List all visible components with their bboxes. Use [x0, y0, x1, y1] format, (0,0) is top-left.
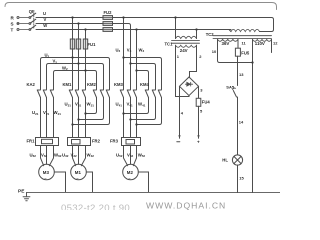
- wire R lead-in: [19, 17, 28, 19]
- svg-text:KM4: KM4: [140, 82, 150, 87]
- wire DC plus upper: [198, 86, 200, 98]
- motor M1: [71, 164, 87, 180]
- wire loop U2: [41, 58, 110, 90]
- wire lamp branch mid 14: [237, 97, 239, 155]
- svg-text:11: 11: [242, 40, 247, 45]
- wire phase3 drop to FU1: [85, 30, 87, 40]
- svg-text:10: 10: [212, 49, 217, 54]
- svg-text:U: U: [43, 11, 46, 16]
- svg-text:W31: W31: [87, 102, 95, 108]
- svg-text:W32: W32: [87, 152, 95, 158]
- svg-text:S: S: [11, 21, 14, 26]
- svg-text:KA2: KA2: [27, 82, 36, 87]
- svg-text:V31: V31: [75, 102, 82, 108]
- wire G1 lower leads: [40, 98, 42, 138]
- node T terminal: [17, 29, 19, 31]
- svg-text:4: 4: [181, 110, 184, 115]
- wire KM4 merge link 3: [137, 98, 162, 125]
- transformer TC2 primary coil: [231, 29, 260, 31]
- wire G2 column 3: [85, 49, 87, 90]
- wire DC plus lower: [198, 106, 200, 138]
- motor M2: [123, 164, 139, 180]
- fuse FU1 pole2: [76, 39, 80, 49]
- lamp HL: [232, 155, 242, 165]
- thermal relay FR3: [122, 138, 141, 146]
- wire motor feeders at 46.5: [41, 146, 44, 166]
- thermal relay FR1: [36, 138, 59, 146]
- svg-text:FR2: FR2: [92, 139, 101, 144]
- svg-text:V41: V41: [127, 102, 134, 108]
- wire G4 column U: [123, 18, 125, 90]
- wire TC1 primary left drop: [175, 18, 177, 39]
- bridge rectifier VC: [180, 77, 199, 96]
- contactor KM2 contacts: [93, 90, 109, 98]
- wire 110V common lead: [252, 39, 254, 192]
- svg-text:V3: V3: [127, 47, 132, 53]
- wire V bus: [36, 24, 131, 58]
- wire 36V left lead 10: [218, 39, 253, 62]
- fuse FU1 pass-through lines: [72, 39, 74, 49]
- fuse FU1 pole1: [70, 39, 74, 49]
- svg-text:QF: QF: [29, 9, 35, 14]
- wire 36V right lead 11: [237, 39, 239, 48]
- wire loop V3: [131, 64, 156, 90]
- svg-text:2: 2: [199, 54, 202, 59]
- svg-text:W62: W62: [54, 152, 62, 158]
- svg-text:TC1: TC1: [165, 41, 174, 46]
- node S terminal: [17, 23, 19, 25]
- svg-text:TC2: TC2: [206, 32, 215, 37]
- svg-text:U32: U32: [62, 152, 69, 158]
- wire TC1 sec lead 2: [190, 45, 197, 77]
- fuse FU2 pole2: [103, 22, 113, 26]
- wire KM4 merge link 1: [124, 98, 149, 114]
- wire loop V2: [47, 64, 104, 90]
- wire G2 column 2: [78, 49, 80, 90]
- fuse FU2 pass-through lines: [103, 17, 113, 19]
- svg-text:24V: 24V: [180, 48, 188, 53]
- svg-text:12: 12: [273, 40, 278, 45]
- contactor KM3 contacts: [120, 90, 136, 98]
- svg-text:110V: 110V: [255, 41, 265, 46]
- svg-text:13: 13: [239, 72, 244, 77]
- svg-text:U3: U3: [116, 47, 121, 53]
- svg-text:FR3: FR3: [110, 139, 119, 144]
- svg-text:HL: HL: [222, 158, 228, 163]
- svg-text:U41: U41: [116, 102, 123, 108]
- wire KM2 merge link 1: [86, 98, 97, 114]
- wire loop U3: [124, 58, 162, 90]
- transformer TC2 36V secondary: [218, 39, 239, 41]
- svg-text:15: 15: [239, 176, 244, 181]
- svg-text:WWW.DQHAI.CN: WWW.DQHAI.CN: [146, 201, 226, 210]
- fuse FU2 pole1: [103, 16, 113, 20]
- svg-text:+: +: [197, 140, 200, 145]
- wire KM4 merge link 2: [131, 98, 156, 120]
- transformer TC1 core: [172, 40, 200, 42]
- wire loop W3: [137, 71, 149, 90]
- svg-text:R: R: [11, 15, 15, 20]
- wire G2 column 1: [72, 49, 74, 90]
- fuse FU5: [235, 48, 240, 56]
- svg-text:W41: W41: [138, 102, 146, 108]
- svg-text:U52: U52: [116, 152, 123, 158]
- svg-text:5: 5: [200, 108, 203, 113]
- switch QF linkage: [33, 13, 35, 29]
- svg-text:U21: U21: [32, 110, 39, 116]
- svg-text:V32: V32: [71, 152, 78, 158]
- wire KM2 merge link 2: [79, 98, 104, 120]
- wire phase2 drop to FU1: [78, 24, 80, 40]
- transformer TC1 secondary coil: [176, 45, 197, 47]
- wire M3 PE drop: [54, 172, 65, 193]
- svg-text:W52: W52: [138, 152, 146, 158]
- watermark: [61, 201, 226, 215]
- wire PE bus: [27, 192, 281, 194]
- svg-text:W21: W21: [54, 110, 62, 116]
- transformer TC2 core: [213, 35, 272, 37]
- switch SA5: [233, 88, 237, 97]
- wire U bus: [36, 18, 274, 32]
- transformer TC2 110V secondary: [253, 39, 272, 41]
- motor M3: [39, 164, 55, 180]
- svg-text:3: 3: [200, 88, 203, 93]
- svg-text:SA5: SA5: [226, 84, 235, 89]
- svg-text:M1: M1: [75, 170, 82, 175]
- svg-text:V: V: [44, 17, 47, 22]
- svg-text:M2: M2: [127, 170, 134, 175]
- contactor KM4 contacts: [145, 90, 161, 98]
- svg-text:V52: V52: [127, 152, 134, 158]
- wire G4 column W: [136, 30, 138, 90]
- thermal relay FR2: [68, 138, 91, 146]
- wire motor feeders at 78.5: [73, 146, 76, 166]
- wire S lead-in: [19, 23, 28, 25]
- svg-text:14: 14: [239, 119, 244, 124]
- wire motor feeders at 130.5: [124, 146, 128, 166]
- wire M1 PE drop: [86, 172, 92, 193]
- wire lamp branch lower 15: [237, 165, 239, 192]
- svg-text:V62: V62: [41, 152, 48, 158]
- fuse FU1 pole3: [83, 39, 87, 49]
- svg-text:V2: V2: [53, 59, 58, 65]
- label minus: [177, 141, 180, 143]
- svg-text:U31: U31: [65, 102, 72, 108]
- svg-text:FU4: FU4: [202, 100, 211, 105]
- svg-text:W2: W2: [62, 65, 68, 71]
- svg-text:FU1: FU1: [88, 42, 97, 47]
- switch QF pole 2: [29, 23, 31, 25]
- wire TC1 primary right lead: [196, 30, 198, 39]
- svg-text:PE: PE: [18, 188, 25, 194]
- wire 110V right stub 12: [271, 39, 273, 52]
- svg-text:W: W: [43, 23, 47, 28]
- svg-text:U2: U2: [45, 53, 50, 59]
- svg-text:U62: U62: [30, 152, 37, 158]
- svg-text:KM1: KM1: [63, 82, 73, 87]
- fuse FU2 pole3: [103, 28, 113, 32]
- wire phase1 drop to FU1: [72, 18, 74, 40]
- svg-text:M3: M3: [43, 170, 50, 175]
- switch QF pole 3: [29, 29, 31, 31]
- svg-text:KM2: KM2: [87, 82, 97, 87]
- svg-text:36V: 36V: [222, 41, 230, 46]
- wire TC1 sec lead 1: [176, 45, 190, 96]
- wire G2 lower leads: [72, 98, 74, 138]
- wire W bus: [36, 29, 231, 31]
- wire loop W2: [54, 71, 97, 90]
- ground symbol: [23, 193, 30, 201]
- contactor KA2 contacts: [37, 90, 53, 98]
- svg-text:KM3: KM3: [114, 82, 124, 87]
- transformer TC1 primary coil: [176, 36, 197, 38]
- svg-text:T: T: [11, 27, 14, 32]
- svg-text:FR1: FR1: [27, 139, 36, 144]
- fuse FU4: [196, 98, 201, 106]
- svg-text:0532-t2 20 t 90: 0532-t2 20 t 90: [61, 203, 130, 210]
- wire G4 column V lower: [130, 57, 132, 90]
- svg-text:V21: V21: [43, 110, 50, 116]
- wire T lead-in: [19, 29, 28, 31]
- svg-text:FU5: FU5: [241, 51, 250, 56]
- wire G4 lower leads: [123, 98, 125, 138]
- wire DC minus: [179, 87, 181, 139]
- top border wire N: [5, 3, 277, 10]
- contactor KM1 contacts: [69, 90, 85, 98]
- wire M2 PE drop: [138, 172, 148, 193]
- node R terminal: [17, 17, 19, 19]
- svg-text:W3: W3: [139, 47, 145, 53]
- switch QF pole 1: [29, 17, 31, 19]
- svg-text:1: 1: [177, 54, 180, 59]
- svg-text:FU2: FU2: [104, 10, 113, 15]
- wire lamp branch upper 13: [237, 56, 239, 85]
- wire KM2 merge link 3: [73, 98, 110, 125]
